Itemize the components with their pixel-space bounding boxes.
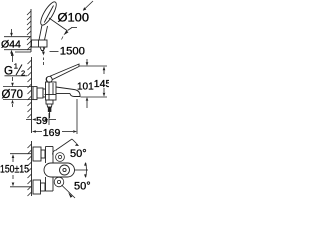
dimension 101/145 bottom extension line — [81, 96, 108, 98]
svg-text:59: 59 — [36, 115, 48, 127]
union nut — [37, 88, 43, 98]
hand shower head (tilted ellipse) — [38, 0, 59, 27]
hose stub — [42, 51, 44, 54]
lower escutcheon — [33, 180, 41, 194]
union pipe — [43, 89, 46, 97]
shower outlet below body — [46, 100, 53, 104]
spout — [56, 87, 74, 90]
hose cut tick — [72, 26, 78, 28]
wall (bottom view) — [31, 141, 33, 196]
svg-text:Ø100: Ø100 — [58, 13, 90, 25]
dimension 101/145 top extension line — [80, 65, 108, 67]
up-swing phantom cap arc — [52, 150, 56, 155]
aerator circle — [60, 165, 70, 175]
50° lower leader arrow — [68, 192, 72, 198]
escutcheon (S-union flange) — [33, 87, 37, 100]
svg-text:Ø70: Ø70 — [2, 89, 24, 101]
down-swing phantom circle — [54, 177, 64, 187]
shower head face line — [44, 6, 53, 23]
wall hatching top — [27, 11, 31, 50]
svg-text:1: 1 — [14, 62, 18, 71]
svg-text:145: 145 — [94, 78, 109, 90]
dimension Ø100 lower leader — [49, 18, 67, 31]
dimension Ø100 upper leader — [84, 1, 94, 10]
mixer body — [46, 82, 57, 100]
wall (top view, hand shower holder) — [30, 9, 32, 52]
svg-text:101: 101 — [77, 82, 94, 93]
holder cone outlet — [40, 47, 45, 51]
swivel arc — [85, 163, 88, 177]
svg-text:1500: 1500 — [60, 45, 85, 57]
dimension 101 — [86, 59, 88, 63]
Ø70 arrows — [11, 83, 14, 87]
upper union nut — [41, 150, 45, 158]
upper escutcheon — [33, 147, 41, 161]
cartridge knob — [46, 76, 52, 82]
wall hatching bottom — [28, 144, 32, 196]
dimension Ø44 arrows — [11, 29, 13, 34]
svg-text:Ø44: Ø44 — [1, 39, 21, 51]
body (top view) — [45, 147, 47, 164]
spout tip — [70, 90, 80, 97]
spout capsule (top view) — [44, 163, 75, 177]
dimension 150±15 — [10, 153, 31, 155]
up-swing phantom circle — [56, 153, 65, 162]
dimension 169 — [32, 130, 36, 133]
down-swing phantom spout line — [62, 185, 76, 198]
dimension Ø70 extension lines — [3, 86, 33, 88]
front view mixer — [33, 64, 80, 118]
lower union nut — [41, 183, 46, 191]
dimension 59 — [26, 119, 31, 121]
wall (front view) — [31, 57, 33, 133]
svg-text:169: 169 — [43, 127, 61, 139]
svg-text:150±15: 150±15 — [0, 164, 29, 176]
lever handle — [51, 64, 80, 80]
50° upper leader — [56, 139, 72, 150]
G 1/2 dimension line — [13, 52, 32, 62]
Ø44 arrowheads — [10, 33, 13, 37]
dimension 145 — [103, 66, 106, 70]
wall hatching middle — [28, 60, 32, 118]
top view mixer — [33, 147, 75, 195]
dimension 1500 leader — [43, 47, 45, 51]
dimension Ø44 extension lines — [4, 36, 31, 38]
wall holder bracket — [32, 40, 48, 47]
svg-text:50°: 50° — [74, 180, 91, 192]
hand shower handle — [39, 25, 42, 40]
swivel centerline — [75, 169, 89, 171]
169 right extension line — [76, 99, 78, 134]
svg-text:50°: 50° — [70, 148, 87, 160]
